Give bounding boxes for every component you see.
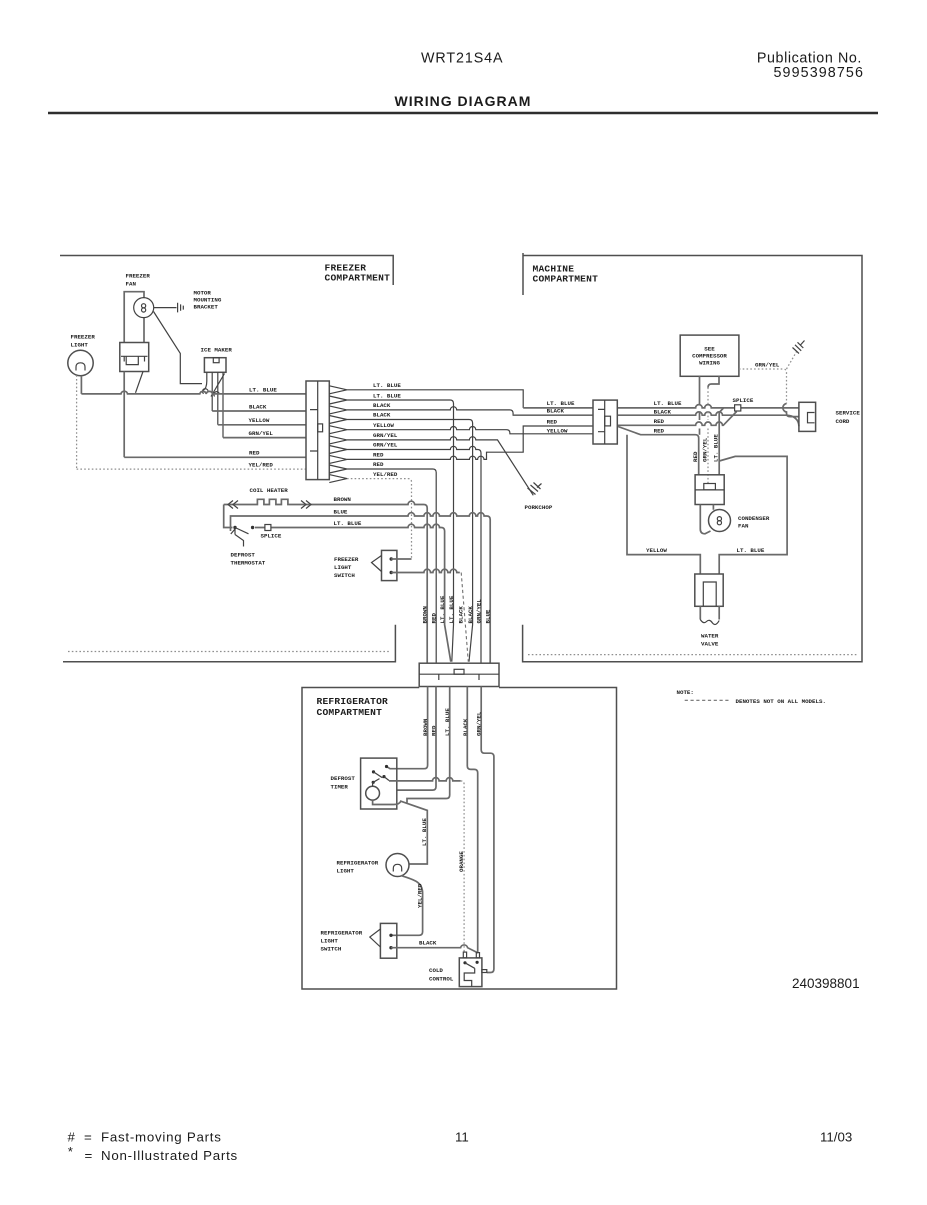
svg-text:MOUNTING: MOUNTING — [194, 297, 222, 304]
svg-text:DEFROST: DEFROST — [331, 775, 356, 782]
machine compartment top and right border — [523, 256, 862, 662]
svg-text:COMPARTMENT: COMPARTMENT — [317, 707, 383, 718]
svg-text:CONDENSER: CONDENSER — [738, 515, 770, 522]
svg-text:COMPARTMENT: COMPARTMENT — [325, 273, 391, 284]
wire LT.BLUE 2 down — [329, 396, 453, 662]
svg-text:ORANGE: ORANGE — [458, 851, 465, 872]
svg-text:5995398756: 5995398756 — [773, 65, 864, 81]
svg-text:REFRIGERATOR: REFRIGERATOR — [321, 930, 363, 937]
fan relay box — [120, 343, 149, 372]
svg-text:=: = — [85, 1148, 93, 1163]
svg-text:BLACK: BLACK — [467, 606, 474, 624]
title rule — [48, 112, 878, 115]
wire BROWN to defrost timer — [387, 687, 428, 769]
wire BLACK light switch to cold control — [391, 945, 478, 953]
svg-text:LT. BLUE: LT. BLUE — [713, 434, 720, 462]
wire RED to defrost timer — [397, 687, 436, 791]
svg-text:WIRING DIAGRAM: WIRING DIAGRAM — [395, 93, 532, 109]
svg-text:COLD: COLD — [429, 967, 443, 974]
svg-text:SPLICE: SPLICE — [733, 397, 754, 404]
svg-text:THERMOSTAT: THERMOSTAT — [231, 560, 266, 567]
svg-text:11/03: 11/03 — [820, 1130, 852, 1145]
compressor wire down to fan (RED vertical) — [699, 376, 701, 434]
svg-text:BRACKET: BRACKET — [194, 304, 219, 311]
wire YEL/RED down to light switch — [329, 475, 347, 483]
wire YELLOW freezer — [218, 424, 306, 426]
svg-text:*: * — [68, 1144, 73, 1159]
freezer fan motor M1 — [134, 298, 154, 318]
svg-text:LIGHT: LIGHT — [337, 868, 355, 875]
wire freezer light to LT.BLUE — [80, 376, 82, 394]
svg-text:RED: RED — [431, 613, 438, 624]
wire LT.BLUE 1 to machine — [329, 386, 523, 408]
wire RED 2 from connector to condenser fan — [618, 427, 699, 475]
wire YEL/RED freezer — [77, 468, 306, 470]
svg-text:SWITCH: SWITCH — [321, 946, 342, 953]
freezer light bulb — [68, 350, 93, 375]
svg-text:PORKCHOP: PORKCHOP — [525, 504, 553, 511]
ground antenna symbol — [787, 350, 798, 369]
wire LT. BLUE freezer main — [81, 391, 306, 394]
svg-text:GRN/YEL: GRN/YEL — [476, 599, 483, 624]
svg-text:RED: RED — [692, 451, 699, 462]
svg-text:BLUE: BLUE — [485, 609, 492, 623]
svg-text:LIGHT: LIGHT — [71, 342, 89, 349]
wire BLACK down to cold control — [467, 687, 477, 953]
svg-text:LT. BLUE: LT. BLUE — [547, 400, 575, 407]
wire RED 1 to machine — [329, 426, 593, 463]
svg-text:GRN/YEL: GRN/YEL — [249, 430, 274, 437]
svg-text:GRN/YEL: GRN/YEL — [755, 362, 780, 369]
wire BLACK freezer — [212, 410, 306, 412]
wire BLUE — [231, 513, 491, 664]
service cord — [799, 402, 816, 431]
svg-text:RED: RED — [654, 418, 665, 425]
svg-text:LIGHT: LIGHT — [334, 564, 352, 571]
wire RED 2 down — [329, 465, 436, 663]
splice on LT.BLUE — [265, 525, 271, 531]
see compressor wiring box — [680, 335, 739, 376]
water valve — [695, 574, 723, 606]
ice maker pins — [203, 372, 207, 390]
svg-text:LIGHT: LIGHT — [321, 938, 339, 945]
svg-text:FAN: FAN — [738, 523, 749, 530]
svg-text:DENOTES NOT ON ALL MODELS.: DENOTES NOT ON ALL MODELS. — [736, 698, 826, 705]
svg-text:FREEZER: FREEZER — [126, 273, 151, 280]
svg-text:SERVICE: SERVICE — [836, 410, 861, 417]
svg-text:BROWN: BROWN — [334, 496, 352, 503]
svg-text:COMPARTMENT: COMPARTMENT — [533, 274, 599, 285]
svg-text:BLUE: BLUE — [334, 509, 348, 516]
wire GRN/YEL 2 down — [329, 446, 481, 664]
wire LT. BLUE machine bus — [523, 405, 799, 408]
svg-text:ICE MAKER: ICE MAKER — [201, 347, 233, 354]
connector P3 machine — [593, 400, 617, 444]
coil heater arrows — [228, 501, 311, 509]
wire GRN/YEL freezer — [223, 437, 306, 439]
svg-text:COIL HEATER: COIL HEATER — [250, 487, 289, 494]
freezer light switch — [382, 550, 397, 580]
svg-text:SWITCH: SWITCH — [334, 572, 355, 579]
wire YELLOW down to water valve — [627, 435, 700, 574]
svg-text:Non-Illustrated Parts: Non-Illustrated Parts — [101, 1148, 238, 1163]
svg-text:YEL/RED: YEL/RED — [416, 883, 423, 908]
wire RED freezer — [124, 456, 306, 458]
svg-text:GRN/YEL: GRN/YEL — [701, 437, 708, 462]
wire GRN/YEL down to cold control — [481, 687, 494, 973]
svg-text:#: # — [68, 1130, 76, 1145]
svg-text:BLACK: BLACK — [373, 402, 391, 409]
cold control — [459, 958, 482, 987]
svg-text:REFRIGERATOR: REFRIGERATOR — [317, 696, 389, 707]
wire ORANGE from timer to cold control — [389, 778, 461, 781]
svg-text:GRN/YEL: GRN/YEL — [373, 432, 398, 439]
svg-text:RED: RED — [547, 419, 558, 426]
svg-text:WRT21S4A: WRT21S4A — [421, 51, 503, 67]
svg-text:RED: RED — [373, 461, 384, 468]
wire fan motor to ice maker loop — [154, 312, 203, 384]
wire light switch bottom (BLACK) — [391, 569, 460, 572]
svg-text:BLACK: BLACK — [457, 606, 464, 624]
wire LT.BLUE outer path to water valve — [719, 456, 787, 574]
svg-text:FAN: FAN — [126, 281, 137, 288]
svg-text:BROWN: BROWN — [422, 606, 429, 624]
svg-text:LT. BLUE: LT. BLUE — [737, 547, 765, 554]
svg-text:REFRIGERATOR: REFRIGERATOR — [337, 860, 379, 867]
wire light switch top to YEL/RED — [391, 558, 411, 560]
svg-text:RED: RED — [654, 428, 665, 435]
svg-text:BLACK: BLACK — [249, 404, 267, 411]
machine compartment left stub — [522, 253, 524, 295]
wire YEL/RED light to switch — [392, 876, 422, 936]
defrost thermostat — [233, 526, 236, 529]
wire RED machine bus to splice — [593, 412, 737, 427]
svg-text:YELLOW: YELLOW — [646, 547, 667, 554]
wire BLACK machine bus — [513, 412, 799, 426]
svg-text:WATER: WATER — [701, 633, 719, 640]
svg-text:YEL/RED: YEL/RED — [249, 462, 274, 469]
svg-text:LT. BLUE: LT. BLUE — [448, 595, 455, 623]
svg-text:YELLOW: YELLOW — [547, 427, 568, 434]
connector P2 horizontal — [419, 663, 499, 686]
svg-text:LT. BLUE: LT. BLUE — [373, 382, 401, 389]
wire fan relay to RED line — [123, 372, 125, 458]
svg-text:LT. BLUE: LT. BLUE — [373, 393, 401, 400]
compressor wire to GRN/YEL dotted vertical — [708, 376, 719, 387]
svg-text:WIRING: WIRING — [699, 360, 720, 367]
freezer compartment bottom border — [63, 625, 395, 662]
svg-text:BLACK: BLACK — [373, 412, 391, 419]
motor mounting bracket symbol — [154, 303, 184, 313]
svg-text:NOTE:: NOTE: — [677, 689, 694, 696]
svg-text:Fast-moving Parts: Fast-moving Parts — [101, 1130, 222, 1145]
svg-text:DEFROST: DEFROST — [231, 552, 256, 559]
svg-text:LT. BLUE: LT. BLUE — [421, 818, 428, 846]
wire LT.BLUE branch down to condenser fan — [719, 408, 723, 475]
svg-text:11: 11 — [455, 1130, 469, 1145]
wire freezer light to YEL/RED — [76, 375, 78, 469]
connector P1 freezer-machine — [306, 381, 329, 480]
freezer compartment dotted line — [68, 651, 390, 653]
porkchop ground symbol — [528, 483, 542, 495]
svg-text:BLACK: BLACK — [654, 409, 672, 416]
svg-text:BLACK: BLACK — [419, 940, 437, 947]
svg-text:RED: RED — [373, 452, 384, 459]
condenser fan connector box — [695, 475, 724, 505]
svg-text:SEE: SEE — [704, 346, 715, 353]
wire LT.BLUE to defrost timer circuit — [407, 687, 450, 803]
defrost timer contacts — [385, 765, 388, 768]
wire BLACK 2 down — [329, 416, 472, 662]
ice maker — [204, 358, 226, 373]
wire GRN/YEL dashed to service cord — [739, 369, 787, 404]
freezer fan frame — [124, 292, 144, 343]
wire BLACK 1 to machine — [329, 406, 593, 415]
svg-text:LT. BLUE: LT. BLUE — [654, 400, 682, 407]
refrigerator light switch — [380, 923, 396, 958]
svg-text:LT. BLUE: LT. BLUE — [439, 595, 446, 623]
svg-text:YEL/RED: YEL/RED — [373, 471, 398, 478]
svg-text:CORD: CORD — [836, 418, 850, 425]
svg-text:YELLOW: YELLOW — [373, 422, 394, 429]
svg-text:=: = — [84, 1130, 92, 1145]
condenser fan motor — [700, 505, 713, 534]
svg-text:TIMER: TIMER — [331, 784, 349, 791]
svg-text:LT. BLUE: LT. BLUE — [334, 520, 362, 527]
svg-text:SPLICE: SPLICE — [261, 533, 282, 540]
machine compartment dotted line — [528, 654, 858, 656]
svg-text:GRN/YEL: GRN/YEL — [373, 442, 398, 449]
wire GRN/YEL 1 to porkchop ground — [329, 436, 533, 495]
defrost timer box — [361, 758, 397, 809]
svg-text:240398801: 240398801 — [792, 976, 860, 991]
defrost timer motor — [366, 786, 380, 800]
wire defrost timer motor to refrigerator light — [373, 800, 428, 864]
svg-text:YELLOW: YELLOW — [249, 417, 270, 424]
wire YELLOW to machine — [329, 426, 593, 434]
svg-text:LT. BLUE: LT. BLUE — [249, 387, 277, 394]
coil heater element and BROWN wire — [224, 499, 428, 663]
wire LT. BLUE heater circuit — [224, 505, 451, 662]
svg-text:COMPRESSOR: COMPRESSOR — [692, 353, 727, 360]
svg-text:RED: RED — [249, 450, 260, 457]
svg-text:FREEZER: FREEZER — [71, 334, 96, 341]
svg-text:BLACK: BLACK — [547, 408, 565, 415]
svg-text:FREEZER: FREEZER — [334, 556, 359, 563]
svg-text:CONTROL: CONTROL — [429, 976, 454, 983]
refrigerator compartment border — [302, 688, 617, 990]
svg-text:MOTOR: MOTOR — [194, 290, 212, 297]
freezer compartment top border — [60, 256, 393, 286]
refrigerator light bulb — [386, 854, 409, 877]
svg-text:VALVE: VALVE — [701, 641, 719, 648]
wire fan relay corner to LT.BLUE line — [136, 372, 144, 393]
